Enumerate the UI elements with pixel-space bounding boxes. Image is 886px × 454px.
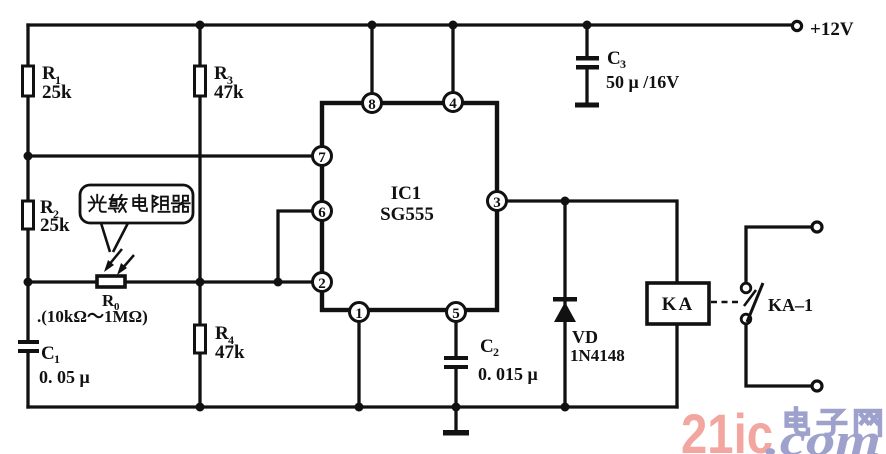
svg-text:2: 2 [318,276,326,292]
label R0 range [37,307,148,326]
switch KA-1 contacts [741,283,763,324]
label C2 0.015u [478,336,538,384]
wire pin7 row [28,154,313,157]
wire R3 R4 column [198,25,201,407]
node terminal bottom right [812,381,822,391]
watermark logo 21ic [681,402,881,454]
wire diode column [563,201,566,407]
wire left rail lower below C1 [26,352,29,407]
svg-text:C: C [607,48,621,69]
capacitor C2 [444,356,468,369]
label R1 25k [42,63,72,103]
svg-text:25k: 25k [40,215,70,236]
svg-text:R: R [215,323,229,344]
svg-text:C: C [41,343,55,364]
wire ground stub [454,407,457,430]
wire C2 bottom [454,370,457,407]
svg-text:0. 015 μ: 0. 015 μ [478,364,538,384]
wire left rail upper [26,25,29,340]
node +12V terminal [792,21,801,30]
wire pin1 down [357,321,360,407]
pin 6 [313,202,332,222]
label C1 0.05u [39,343,90,387]
svg-text:6: 6 [318,205,326,221]
wire switch top lead [746,227,811,283]
svg-text:2: 2 [493,345,499,359]
svg-text:.(10kΩ～1MΩ): .(10kΩ～1MΩ) [37,307,148,326]
label VD 1N4148 [570,327,625,365]
capacitor C1 [18,340,39,353]
photoresistor R0 [97,276,125,287]
label IC1 SG555 [380,183,434,225]
svg-text:25k: 25k [42,82,72,103]
svg-text:21ic: 21ic [681,402,773,454]
label C3 50u/16V [606,48,679,92]
svg-text:KA: KA [662,294,695,315]
op-amp U1 IC1 SG555 box [322,103,497,310]
svg-text:50 μ /16V: 50 μ /16V [606,72,679,92]
svg-text:47k: 47k [214,82,244,103]
svg-text:4: 4 [449,96,457,112]
arrows light [104,249,134,275]
wire pin4 to rail [451,25,454,94]
resistor R1 [23,66,34,96]
watermark dianziwang [787,408,880,435]
char dian [133,195,147,211]
wire pin3 row to relay [506,201,677,283]
callout bubble photoresistor label [80,185,193,252]
resistor R3 [195,66,206,96]
wire pin8 to rail [370,25,373,94]
label R4 47k [215,323,245,363]
capacitor C3 [576,56,599,70]
svg-text:5: 5 [452,306,460,322]
relay KA [647,283,709,324]
svg-text:1: 1 [54,352,60,366]
pin 4 [444,93,463,113]
wire pin2 row through R0 [28,280,313,283]
svg-text:47k: 47k [215,342,245,363]
svg-text:7: 7 [318,150,326,166]
wire pin5 to C2 [454,321,457,357]
ground bar C3 [575,103,599,108]
node terminal top right [812,222,822,232]
wire dashed link relay to contact [711,301,740,304]
pin 2 [313,273,332,293]
label R3 47k [214,63,244,103]
svg-text:3: 3 [493,195,501,211]
resistor R4 [195,325,206,353]
svg-text:8: 8 [368,97,376,113]
wire C3 bottom [585,70,588,103]
char guang [89,195,106,212]
svg-text:3: 3 [620,57,626,71]
wire bottom rail [28,405,677,408]
label KA-1 [768,295,813,315]
svg-text:R: R [214,63,228,84]
node junction dots [24,21,592,412]
pin 8 [363,94,382,114]
svg-text:IC1: IC1 [391,183,422,204]
char qi [172,196,190,212]
diode VD 1N4148 [553,297,577,322]
svg-text:+12V: +12V [810,19,854,40]
wire C3 top [585,25,588,57]
pin 3 [488,192,507,212]
ground [443,430,469,436]
label +12V [810,19,854,40]
label R0 [102,291,120,313]
wire switch bottom lead [746,324,811,386]
wire top rail +12V [28,23,792,26]
svg-text:1: 1 [355,306,363,322]
label R2 25k [40,197,70,236]
svg-text:0. 05 μ: 0. 05 μ [39,367,90,387]
svg-text:SG555: SG555 [380,204,434,225]
char min [109,195,127,212]
svg-text:C: C [480,336,494,357]
pin 7 [313,147,332,167]
svg-text:VD: VD [572,327,598,347]
pin 5 [447,303,466,323]
wire relay bottom [675,324,678,407]
svg-text:R: R [42,63,56,84]
label guang min dian zu qi (photoresistor) [89,195,190,212]
char zu [153,196,170,212]
resistor R2 [23,201,34,229]
wire pin6 link [278,211,313,282]
svg-text:KA–1: KA–1 [768,295,813,315]
pin 1 [350,303,369,323]
svg-text:1N4148: 1N4148 [570,346,625,365]
